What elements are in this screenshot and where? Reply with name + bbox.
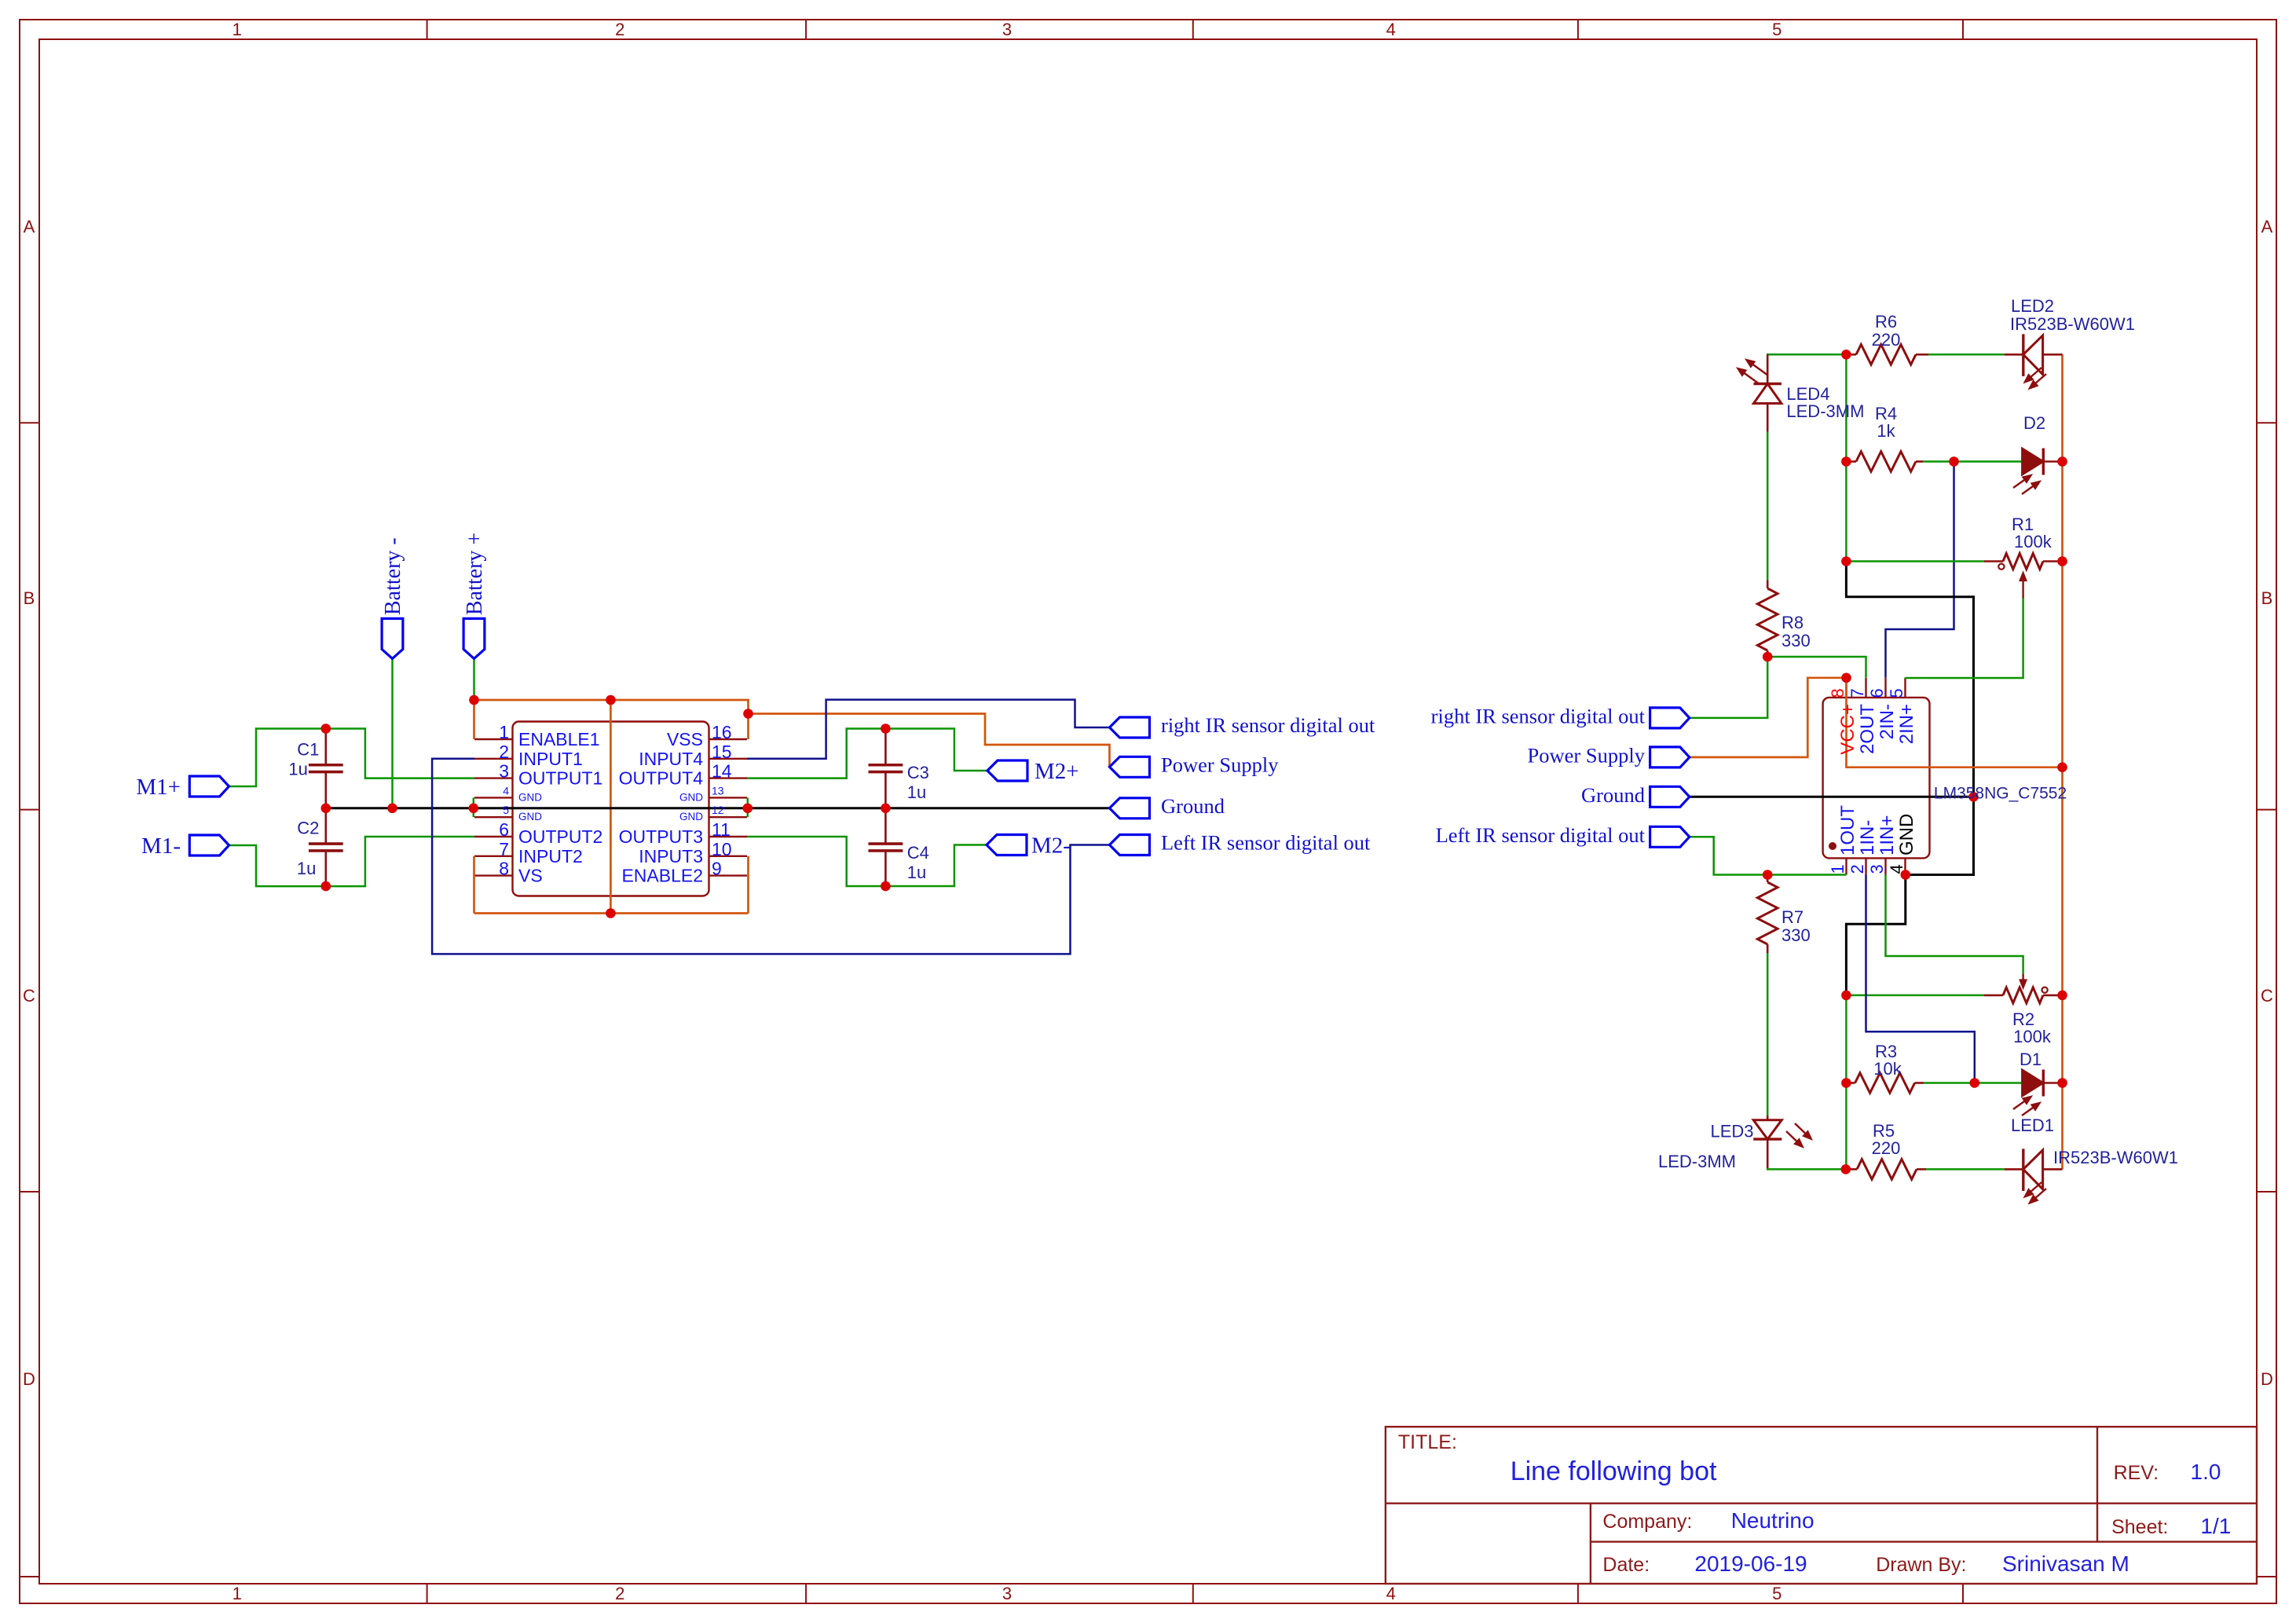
IC U1 pin numbers	[499, 722, 732, 879]
op-amp U2 pin1 marker dot	[1829, 842, 1836, 850]
svg-text:1u: 1u	[907, 863, 926, 882]
wire INPUT4 pin15 to right IR flag (navy)	[747, 700, 1110, 759]
svg-text:9: 9	[712, 859, 722, 879]
port Power Supply (right block)	[1650, 747, 1690, 768]
svg-text:4: 4	[503, 784, 509, 797]
IC U1 L293D body	[513, 722, 709, 896]
wire pin10 INPUT3 / pin9 ENABLE2 to VCC bottom rail	[747, 856, 749, 914]
junction R2 left / GND loop	[1841, 991, 1851, 1001]
wire R6 to LED2 (green)	[1928, 354, 2005, 356]
label Battery-	[381, 537, 405, 615]
svg-text:7: 7	[1847, 688, 1867, 698]
svg-text:1.0: 1.0	[2191, 1460, 2221, 1484]
junction R8 bottom	[1763, 652, 1773, 662]
wire right IR flag to R8 (green)	[1690, 657, 1767, 718]
svg-text:6: 6	[1867, 688, 1887, 698]
svg-text:2: 2	[499, 742, 509, 762]
port M2- flag	[987, 835, 1027, 855]
IC U1 pin stubs	[474, 739, 747, 876]
label C4	[907, 843, 929, 882]
svg-text:5: 5	[503, 804, 509, 816]
svg-text:14: 14	[712, 761, 732, 782]
svg-text:8: 8	[1828, 688, 1847, 698]
svg-text:3: 3	[499, 761, 509, 782]
label R4	[1875, 404, 1897, 441]
capacitor C3 plates	[869, 765, 903, 772]
svg-text:2IN-: 2IN-	[1877, 704, 1898, 739]
svg-text:16: 16	[712, 722, 732, 742]
svg-text:1IN-: 1IN-	[1857, 820, 1878, 855]
title block title value	[1511, 1456, 1717, 1486]
svg-text:5: 5	[1772, 20, 1782, 39]
wire OUTPUT3 pin11 to M2-	[747, 837, 987, 886]
junction R4 left	[1841, 456, 1851, 467]
svg-text:100k: 100k	[2013, 1027, 2052, 1046]
potentiometer R1 100k	[1984, 554, 2063, 599]
label LED2	[2010, 296, 2135, 334]
wire Left IR flag to 1OUT pin1 (green)	[1690, 837, 1847, 874]
junction C1-C2 / ground bus	[321, 804, 331, 814]
LED LED3 LED-3MM	[1753, 1116, 1812, 1168]
svg-text:100k: 100k	[2014, 532, 2052, 551]
wire R1 left (green)	[1846, 560, 1984, 562]
svg-text:ENABLE2: ENABLE2	[621, 866, 703, 886]
svg-text:Date:: Date:	[1602, 1554, 1650, 1576]
resistor R4 1k	[1846, 452, 1923, 472]
svg-text:LED-3MM: LED-3MM	[1658, 1152, 1736, 1171]
photodiode D1	[2013, 1070, 2063, 1116]
junction C3-C4 / ground bus	[881, 804, 891, 814]
label M2-	[1031, 833, 1071, 859]
wire left column green R6-R4-R1	[1845, 354, 1847, 561]
svg-text:D: D	[23, 1369, 35, 1389]
svg-text:1: 1	[1828, 864, 1847, 874]
svg-text:C: C	[2261, 986, 2273, 1006]
op-amp U2 LM358 body	[1823, 698, 1930, 859]
label Battery+	[463, 533, 487, 615]
svg-text:VS: VS	[518, 866, 543, 886]
LED LED4 LED-3MM	[1737, 354, 1782, 431]
wire pin7 INPUT2 / pin8 VS to VCC bottom rail	[473, 856, 475, 914]
wire pin4-pin5 GND bridge	[473, 797, 475, 817]
label IR523B-W60W1 (LED1)	[2053, 1148, 2178, 1167]
wire Ground flag to GND vertical (black)	[1690, 796, 1974, 798]
junction Battery- / ground bus	[387, 804, 397, 814]
svg-text:12: 12	[712, 804, 724, 816]
wire Power Supply flag to pin8 VCC+ (orange)	[1690, 678, 1847, 757]
wire 1IN+ pin3 to R2 wiper (green)	[1886, 875, 2023, 975]
svg-text:5: 5	[1772, 1584, 1782, 1603]
svg-text:INPUT2: INPUT2	[518, 846, 583, 866]
junction R3-D1 / navy	[1970, 1078, 1980, 1088]
svg-text:D: D	[2261, 1369, 2273, 1389]
svg-text:Drawn By:: Drawn By:	[1876, 1554, 1966, 1576]
svg-text:IR523B-W60W1: IR523B-W60W1	[2053, 1148, 2178, 1167]
label LED1	[2011, 1116, 2054, 1135]
svg-text:10k: 10k	[1873, 1059, 1902, 1079]
svg-text:2019-06-19: 2019-06-19	[1694, 1552, 1807, 1576]
svg-text:C3: C3	[907, 763, 929, 782]
wire R7 to LED3 (green)	[1767, 953, 1769, 1116]
svg-text:INPUT3: INPUT3	[639, 846, 703, 866]
junction pins4-5 / ground bus	[469, 804, 479, 814]
wire GND black loop bottom	[1846, 875, 1905, 995]
svg-text:right IR sensor digital out: right IR sensor digital out	[1161, 713, 1375, 737]
svg-text:ENABLE1: ENABLE1	[518, 729, 600, 749]
svg-text:C2: C2	[297, 819, 319, 838]
wire orange right column	[2061, 354, 2063, 1169]
port Power Supply (left block)	[1110, 757, 1150, 777]
junction pins13-12 / ground bus	[743, 804, 753, 814]
port M1+ flag	[189, 776, 229, 797]
port M1- flag	[189, 835, 229, 855]
IC U1 pin names	[518, 729, 703, 886]
svg-text:Neutrino: Neutrino	[1731, 1508, 1814, 1533]
svg-text:Battery +: Battery +	[463, 533, 487, 615]
junction R6/LED4 rail	[1841, 350, 1851, 360]
label C1	[288, 740, 319, 779]
label D2	[2023, 413, 2045, 433]
wire R8 junction to 2OUT pin7	[1767, 657, 1866, 678]
wire INPUT1 pin2 to Left IR flag (navy loop)	[432, 759, 1109, 954]
svg-text:R8: R8	[1782, 613, 1803, 632]
wire R4 to D2 (green)	[1923, 460, 2022, 463]
svg-text:1k: 1k	[1877, 421, 1895, 441]
svg-text:Company:: Company:	[1602, 1511, 1692, 1533]
svg-text:LED-3MM: LED-3MM	[1786, 401, 1864, 421]
label R8	[1782, 613, 1811, 650]
svg-text:GND: GND	[679, 791, 703, 803]
svg-text:VSS: VSS	[667, 729, 703, 749]
junction R3 left	[1841, 1078, 1851, 1088]
wire Battery+ drop	[473, 659, 475, 701]
capacitor C4 leads	[884, 808, 887, 886]
junction Battery+ / VCC rail	[469, 695, 479, 705]
svg-text:OUTPUT1: OUTPUT1	[518, 768, 602, 789]
svg-text:1u: 1u	[907, 782, 926, 802]
svg-text:M1-: M1-	[141, 833, 181, 859]
label D1	[2020, 1050, 2041, 1069]
svg-text:LED2: LED2	[2011, 296, 2054, 316]
svg-text:B: B	[2261, 588, 2273, 608]
title block Company	[1602, 1508, 1814, 1533]
junction VCC rail / pin16	[743, 709, 753, 719]
wire pin16 VSS to VCC rail	[747, 714, 749, 740]
label U2 LM358NG_C7552	[1934, 785, 2067, 803]
wire VCC+ pin8 through body to orange rail	[1847, 678, 2063, 768]
svg-text:D1: D1	[2020, 1050, 2041, 1069]
label Power Supply (right block)	[1528, 744, 1646, 768]
wire VCC bottom rail (orange)	[474, 912, 749, 914]
svg-text:INPUT4: INPUT4	[639, 749, 703, 769]
wire VCC center vertical through U1	[610, 700, 612, 914]
svg-text:GND: GND	[518, 811, 542, 822]
svg-text:11: 11	[712, 819, 731, 840]
title block Date	[1602, 1552, 1807, 1576]
capacitor C2 leads	[324, 808, 327, 886]
op-amp U2 pin numbers	[1828, 688, 1906, 874]
wire 2IN+ pin5 to R1 wiper (green)	[1906, 599, 2023, 679]
svg-text:13: 13	[712, 784, 724, 797]
label R5	[1872, 1121, 1901, 1158]
svg-text:1u: 1u	[297, 859, 316, 878]
svg-text:1: 1	[233, 20, 242, 39]
title block Sheet	[2111, 1514, 2231, 1538]
wire pin1 ENABLE1 to VCC rail	[473, 700, 475, 739]
svg-text:2OUT: 2OUT	[1857, 704, 1878, 754]
svg-text:right IR sensor digital out: right IR sensor digital out	[1431, 705, 1646, 728]
svg-text:Power Supply: Power Supply	[1528, 744, 1646, 768]
label M1+	[136, 775, 181, 800]
wire M1+ to OUTPUT1 pin3	[229, 729, 475, 787]
title block Drawn By	[1876, 1552, 2129, 1576]
capacitor C1 leads	[324, 729, 327, 808]
junction C4 bottom / M2- rail	[881, 881, 891, 892]
label Left IR sensor digital out (left block)	[1161, 831, 1371, 855]
svg-text:3: 3	[1002, 1584, 1012, 1603]
LED LED2 IR523B-W60W1	[2005, 334, 2063, 389]
svg-text:1u: 1u	[288, 760, 307, 779]
wire M1- to OUTPUT2 pin6	[229, 837, 475, 886]
junction R7 top / 1OUT	[1763, 870, 1773, 880]
resistor R5 220	[1846, 1160, 1926, 1180]
capacitor C3 leads	[884, 729, 887, 808]
svg-text:15: 15	[712, 742, 732, 762]
junction VCC bottom rail / center vertical	[606, 908, 616, 918]
svg-text:A: A	[24, 217, 35, 236]
svg-text:10: 10	[712, 839, 732, 859]
label LED3	[1658, 1121, 1754, 1171]
svg-text:330: 330	[1782, 925, 1811, 945]
svg-text:1/1: 1/1	[2200, 1514, 2231, 1538]
junction D2 / orange column	[2057, 456, 2067, 467]
svg-text:Sheet:: Sheet:	[2111, 1516, 2168, 1538]
port Left IR sensor digital out (left block)	[1110, 835, 1150, 855]
svg-text:REV:: REV:	[2114, 1462, 2159, 1484]
svg-text:LED1: LED1	[2011, 1116, 2054, 1135]
svg-text:B: B	[24, 588, 35, 608]
svg-text:3: 3	[1867, 864, 1887, 874]
port right IR sensor digital out (left block)	[1110, 717, 1150, 738]
wire R3 to D1 (green)	[1924, 1082, 2022, 1084]
svg-text:1IN+: 1IN+	[1877, 815, 1898, 855]
wire LED4 top rail to R6	[1767, 354, 1846, 383]
svg-text:Battery -: Battery -	[381, 537, 405, 615]
svg-text:TITLE:: TITLE:	[1398, 1431, 1457, 1453]
svg-text:Srinivasan M: Srinivasan M	[2002, 1552, 2129, 1576]
label LED4	[1786, 384, 1864, 421]
capacitor C2 plates	[309, 844, 343, 851]
junction R4-D2 / navy	[1949, 456, 1959, 467]
svg-text:R6: R6	[1875, 312, 1897, 332]
svg-text:220: 220	[1872, 330, 1901, 350]
label C2	[297, 819, 319, 879]
svg-text:220: 220	[1872, 1138, 1901, 1158]
svg-text:LM358NG_C7552: LM358NG_C7552	[1934, 785, 2067, 803]
svg-text:C: C	[23, 986, 35, 1006]
svg-text:2: 2	[1847, 864, 1867, 874]
svg-text:IR523B-W60W1: IR523B-W60W1	[2010, 314, 2135, 334]
junction C2 bottom / M1- rail	[321, 881, 331, 892]
wire 1IN- pin2 to D1 junction (navy)	[1866, 875, 1975, 1083]
svg-text:6: 6	[499, 819, 509, 840]
svg-text:Ground: Ground	[1161, 794, 1225, 818]
svg-text:D2: D2	[2023, 413, 2045, 433]
label Power Supply (left block)	[1161, 753, 1279, 777]
wire ground bus (black)	[326, 807, 1110, 809]
wire GND black loop top	[1846, 562, 1973, 875]
wire OUTPUT4 pin14 to M2+	[747, 729, 987, 779]
svg-text:LED3: LED3	[1710, 1121, 1753, 1141]
label right IR sensor digital out (left block)	[1161, 713, 1375, 737]
svg-text:1OUT: 1OUT	[1837, 805, 1858, 855]
wire VCC top rail (orange)	[474, 700, 1110, 767]
wire R5 to LED1 (green)	[1926, 1168, 2005, 1171]
svg-text:4: 4	[1386, 1584, 1396, 1603]
svg-text:1: 1	[499, 722, 509, 742]
junction R1 left / GND loop	[1841, 556, 1851, 566]
svg-text:M1+: M1+	[136, 775, 181, 800]
junction R5 left / LED3	[1841, 1164, 1851, 1174]
title block frame	[1386, 1427, 2257, 1584]
svg-text:4: 4	[1887, 864, 1906, 874]
junction Ground flag / black vertical	[1968, 792, 1979, 802]
op-amp U2 pin names	[1837, 704, 1917, 855]
svg-text:INPUT1: INPUT1	[518, 749, 583, 769]
svg-text:A: A	[2261, 217, 2273, 236]
svg-text:3: 3	[1002, 20, 1012, 39]
svg-text:Ground: Ground	[1581, 783, 1645, 807]
wire R2 left (green)	[1846, 995, 1984, 997]
port Ground (right block)	[1650, 786, 1690, 807]
label M2+	[1034, 759, 1079, 784]
capacitor C1 plates	[309, 765, 343, 772]
svg-text:1: 1	[233, 1584, 242, 1603]
junction VCC rail / center vertical	[606, 695, 616, 705]
label R2	[2012, 1009, 2052, 1046]
svg-text:5: 5	[1887, 688, 1906, 698]
svg-text:GND: GND	[518, 791, 542, 803]
port Left IR sensor digital out (right block)	[1650, 826, 1690, 847]
svg-text:OUTPUT4: OUTPUT4	[619, 768, 704, 789]
title block TITLE label	[1398, 1431, 1457, 1453]
junction pin8 VCC+ top	[1841, 673, 1851, 683]
wire D2 junction navy to 2IN- pin6	[1886, 462, 1954, 678]
title block REV	[2114, 1460, 2221, 1484]
resistor R3 10k	[1846, 1073, 1924, 1094]
label M1-	[141, 833, 181, 859]
svg-text:2IN+: 2IN+	[1896, 704, 1917, 744]
label Ground (left block)	[1161, 794, 1225, 818]
svg-text:GND: GND	[679, 811, 703, 822]
label R1	[2012, 515, 2052, 551]
label R3	[1873, 1042, 1902, 1079]
port Ground (left block)	[1110, 798, 1150, 819]
svg-text:Left IR sensor digital out: Left IR sensor digital out	[1436, 823, 1646, 847]
wire left column green R2-R3-R5	[1845, 995, 1847, 1170]
junction D1 / orange column	[2057, 1078, 2067, 1088]
wire pin13-pin12 GND bridge	[747, 797, 749, 817]
resistor R6 220	[1846, 345, 1928, 365]
svg-text:M2+: M2+	[1034, 759, 1079, 784]
svg-text:7: 7	[499, 839, 509, 859]
svg-text:OUTPUT3: OUTPUT3	[619, 826, 703, 847]
junction C3 top / M2+ rail	[881, 724, 891, 734]
svg-text:C1: C1	[297, 740, 319, 760]
junction pin4 GND bottom	[1901, 870, 1911, 880]
port right IR sensor digital out (right block)	[1650, 708, 1690, 728]
svg-text:OUTPUT2: OUTPUT2	[518, 826, 602, 847]
LED LED1 IR523B-W60W1	[2005, 1149, 2063, 1204]
svg-text:GND: GND	[1896, 814, 1917, 855]
op-amp U2 pin stubs	[1847, 678, 1906, 875]
svg-text:VCC+: VCC+	[1837, 704, 1858, 755]
svg-text:4: 4	[1386, 20, 1396, 39]
svg-text:Line following bot: Line following bot	[1511, 1456, 1717, 1486]
potentiometer R2 100k	[1984, 974, 2063, 1003]
capacitor C4 plates	[869, 844, 903, 851]
label R6	[1872, 312, 1901, 350]
label right IR sensor digital out (right block)	[1431, 705, 1646, 728]
label Ground (right block)	[1581, 783, 1645, 807]
photodiode D2	[2013, 449, 2063, 495]
svg-text:8: 8	[499, 859, 509, 879]
svg-text:2: 2	[615, 1584, 624, 1603]
junction R1 right / orange column	[2057, 556, 2067, 566]
port Battery- flag	[382, 618, 403, 658]
svg-text:M2-: M2-	[1031, 833, 1071, 859]
resistor R8 330	[1757, 581, 1778, 658]
svg-text:C4: C4	[907, 843, 929, 863]
label C3	[907, 763, 929, 802]
label Left IR sensor digital out (right block)	[1436, 823, 1646, 847]
port M2+ flag	[987, 760, 1027, 781]
svg-text:Left IR sensor digital out: Left IR sensor digital out	[1161, 831, 1371, 855]
wire LED4 to R8 (green)	[1767, 432, 1769, 581]
resistor R7 330	[1757, 875, 1778, 954]
svg-text:2: 2	[615, 20, 624, 39]
wire Battery- drop to ground bus	[391, 659, 394, 808]
port Battery+ flag	[463, 618, 485, 658]
junction R2 right / orange column	[2057, 991, 2067, 1001]
svg-text:R7: R7	[1782, 907, 1803, 927]
svg-text:330: 330	[1782, 631, 1811, 650]
junction C1 top / M1+ rail	[321, 724, 331, 734]
junction VCC rail / orange column	[2057, 762, 2067, 772]
label R7	[1782, 907, 1811, 945]
wire LED3 to R5 (green)	[1767, 1168, 1846, 1169]
svg-text:Power Supply: Power Supply	[1161, 753, 1279, 777]
